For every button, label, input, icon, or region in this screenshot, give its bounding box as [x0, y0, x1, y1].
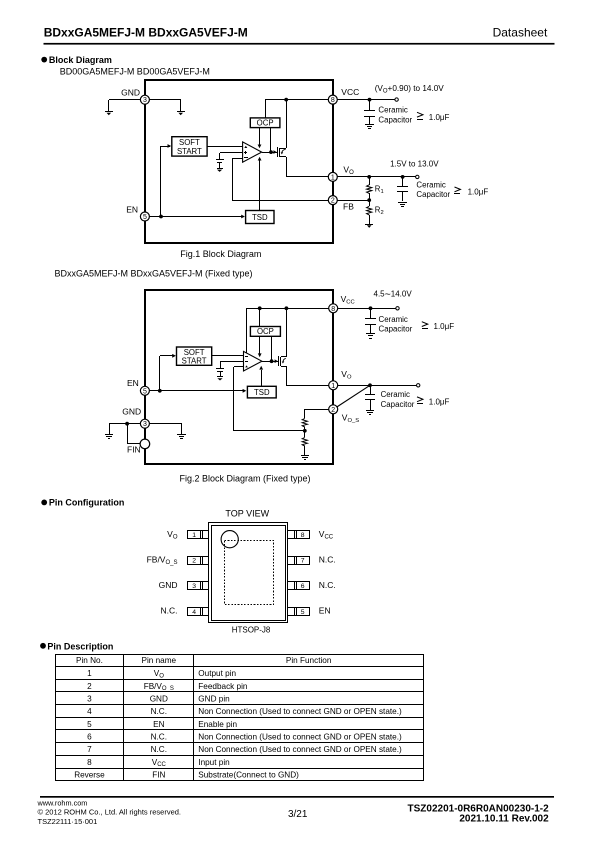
svg-text:GND pin: GND pin [198, 694, 230, 703]
svg-text:1.0μF: 1.0μF [434, 322, 455, 331]
svg-text:www.rohm.com: www.rohm.com [37, 798, 88, 807]
svg-text:6: 6 [87, 733, 92, 742]
svg-text:Reverse: Reverse [74, 771, 105, 780]
svg-text:FB/VO_S: FB/VO_S [147, 555, 178, 567]
svg-text:1: 1 [192, 532, 196, 539]
svg-text:5: 5 [143, 214, 147, 221]
svg-text:Pin Configuration: Pin Configuration [49, 498, 125, 508]
svg-text:3: 3 [192, 583, 196, 590]
svg-text:OCP: OCP [257, 118, 274, 127]
svg-text:OCP: OCP [257, 327, 274, 336]
svg-text:N.C.: N.C. [151, 707, 167, 716]
svg-text:2021.10.11 Rev.002: 2021.10.11 Rev.002 [459, 814, 549, 825]
svg-text:BDxxGA5MEFJ-M BDxxGA5VEFJ-M: BDxxGA5MEFJ-M BDxxGA5VEFJ-M [44, 25, 248, 39]
svg-text:8: 8 [331, 306, 335, 313]
svg-text:Non Connection (Used to connec: Non Connection (Used to connect GND or O… [198, 745, 402, 754]
svg-text:EN: EN [127, 378, 139, 388]
svg-text:1.0μF: 1.0μF [468, 188, 489, 197]
svg-text:Pin name: Pin name [142, 656, 177, 665]
svg-text:2: 2 [192, 558, 196, 565]
svg-text:Capacitor: Capacitor [381, 400, 415, 409]
svg-text:R2: R2 [375, 206, 384, 216]
svg-text:EN: EN [319, 606, 331, 616]
svg-text:5: 5 [87, 720, 92, 729]
svg-text:N.C.: N.C. [151, 733, 167, 742]
svg-text:BD00GA5MEFJ-M BD00GA5VEFJ-M: BD00GA5MEFJ-M BD00GA5VEFJ-M [60, 66, 210, 76]
svg-text:Capacitor: Capacitor [416, 190, 450, 199]
svg-text:3/21: 3/21 [288, 809, 308, 820]
svg-text:Enable pin: Enable pin [198, 720, 237, 729]
svg-text:Pin Description: Pin Description [47, 641, 113, 651]
svg-text:Non Connection (Used to connec: Non Connection (Used to connect GND or O… [198, 733, 402, 742]
svg-text:1.0μF: 1.0μF [429, 397, 450, 406]
svg-text:EN: EN [153, 720, 164, 729]
svg-text:4: 4 [192, 609, 196, 616]
svg-text:FIN: FIN [152, 771, 165, 780]
svg-text:Ceramic: Ceramic [379, 315, 408, 324]
svg-text:Pin Function: Pin Function [286, 656, 332, 665]
svg-text:4.5~14.0V: 4.5~14.0V [374, 289, 413, 301]
svg-text:7: 7 [301, 558, 305, 565]
svg-text:2: 2 [331, 407, 335, 414]
svg-text:(VO+0.90) to 14.0V: (VO+0.90) to 14.0V [375, 84, 445, 95]
svg-text:START: START [182, 356, 207, 365]
svg-text:3: 3 [143, 97, 147, 104]
svg-text:VO: VO [167, 529, 178, 541]
svg-text:N.C.: N.C. [319, 580, 336, 590]
svg-text:N.C.: N.C. [319, 555, 336, 565]
svg-text:VCC: VCC [319, 529, 334, 541]
svg-text:1.5V to 13.0V: 1.5V to 13.0V [390, 160, 439, 169]
svg-text:Pin No.: Pin No. [76, 656, 103, 665]
svg-text:VO_S: VO_S [342, 413, 359, 425]
svg-text:TSD: TSD [252, 213, 268, 222]
svg-text:2: 2 [331, 198, 335, 205]
svg-text:GND: GND [122, 406, 141, 416]
svg-text:VCC: VCC [341, 87, 359, 97]
svg-text:3: 3 [143, 421, 147, 428]
svg-text:8: 8 [87, 758, 92, 767]
svg-text:5: 5 [301, 609, 305, 616]
svg-text:VCC: VCC [152, 758, 167, 768]
svg-text:Substrate(Connect to GND): Substrate(Connect to GND) [198, 771, 299, 780]
svg-text:7: 7 [87, 745, 92, 754]
svg-text:TSZ22111·15·001: TSZ22111·15·001 [38, 817, 98, 826]
svg-text:5: 5 [143, 388, 147, 395]
svg-text:Block Diagram: Block Diagram [49, 55, 112, 65]
svg-text:START: START [177, 147, 202, 156]
svg-text:8: 8 [331, 97, 335, 104]
svg-text:VO: VO [341, 369, 352, 381]
svg-text:R1: R1 [375, 185, 384, 195]
svg-text:Fig.1 Block Diagram: Fig.1 Block Diagram [180, 249, 261, 259]
svg-text:Feedback pin: Feedback pin [198, 682, 248, 691]
svg-text:FB: FB [343, 202, 354, 212]
svg-text:3: 3 [87, 694, 92, 703]
svg-text:N.C.: N.C. [151, 745, 167, 754]
svg-text:TOP VIEW: TOP VIEW [225, 508, 269, 518]
svg-text:Ceramic: Ceramic [378, 106, 407, 115]
svg-text:Fig.2 Block Diagram (Fixed typ: Fig.2 Block Diagram (Fixed type) [180, 473, 311, 483]
svg-text:EN: EN [126, 205, 138, 215]
svg-text:Ceramic: Ceramic [381, 390, 410, 399]
svg-text:Non Connection (Used to connec: Non Connection (Used to connect GND or O… [198, 707, 402, 716]
svg-text:Input pin: Input pin [198, 758, 230, 767]
svg-text:© 2012 ROHM Co., Ltd. All righ: © 2012 ROHM Co., Ltd. All rights reserve… [38, 808, 182, 817]
svg-text:2: 2 [87, 682, 92, 691]
svg-text:6: 6 [301, 583, 305, 590]
svg-text:1: 1 [331, 383, 335, 390]
svg-text:GND: GND [159, 580, 178, 590]
svg-text:VCC: VCC [341, 294, 355, 306]
svg-text:Capacitor: Capacitor [378, 115, 412, 124]
svg-text:1.0μF: 1.0μF [429, 113, 450, 122]
svg-text:Capacitor: Capacitor [379, 325, 413, 334]
svg-text:VO: VO [154, 669, 164, 679]
svg-text:GND: GND [150, 694, 168, 703]
svg-text:1: 1 [331, 174, 335, 181]
svg-text:N.C.: N.C. [161, 606, 178, 616]
svg-text:4: 4 [87, 707, 92, 716]
svg-text:HTSOP-J8: HTSOP-J8 [232, 625, 271, 634]
svg-text:Ceramic: Ceramic [416, 180, 445, 189]
svg-text:FB/VO_S: FB/VO_S [144, 682, 174, 692]
svg-text:Datasheet: Datasheet [493, 25, 548, 39]
svg-text:1: 1 [87, 669, 92, 678]
svg-text:Output pin: Output pin [198, 669, 236, 678]
svg-text:TSD: TSD [254, 388, 270, 397]
svg-text:FIN: FIN [127, 445, 141, 455]
svg-text:VO: VO [343, 164, 354, 176]
svg-text:8: 8 [301, 532, 305, 539]
svg-text:BDxxGA5MEFJ-M BDxxGA5VEFJ-M (F: BDxxGA5MEFJ-M BDxxGA5VEFJ-M (Fixed type) [55, 269, 253, 279]
svg-text:GND: GND [121, 88, 140, 98]
